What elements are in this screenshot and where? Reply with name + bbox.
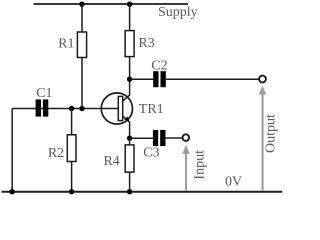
node: R2 / 0V junction — [69, 189, 74, 194]
TR1 emitter arrowhead — [124, 116, 129, 121]
output terminal (open circle) — [259, 76, 266, 83]
wire: supply rail — [34, 3, 189, 5]
svg-text:R2: R2 — [48, 146, 64, 161]
wire: base wire from left riser to TR1 base — [12, 108, 118, 110]
TR1 body circle — [101, 93, 132, 124]
wire: R4 bottom to 0V rail — [129, 172, 131, 192]
node: base wire / R1 junction — [79, 106, 84, 111]
TR1 base bar — [118, 96, 122, 120]
resistor R3 — [125, 31, 134, 57]
svg-text:R1: R1 — [58, 37, 74, 52]
wire: supply rail to R1 top — [81, 4, 83, 32]
svg-text:R3: R3 — [138, 36, 154, 51]
svg-text:C2: C2 — [151, 59, 167, 74]
resistor R1 — [77, 32, 86, 58]
output annotation arrow — [259, 86, 267, 191]
node: collector / C2 junction — [127, 77, 132, 82]
svg-text:Output: Output — [264, 114, 279, 153]
capacitor C1 — [36, 99, 49, 116]
wire: left grounding riser — [11, 109, 13, 193]
node: R4 / 0V junction — [127, 189, 132, 194]
node: emitter / R4 / C3 junction — [127, 136, 132, 141]
svg-text:C3: C3 — [143, 145, 159, 160]
transistor TR1 (NPN) — [101, 93, 132, 124]
resistor R4 — [125, 145, 134, 172]
wire: 0V rail — [2, 191, 283, 193]
capacitor C2 — [153, 71, 166, 87]
wire: base node down to R2 top — [71, 109, 73, 135]
svg-text:C1: C1 — [36, 86, 52, 101]
input terminal (open circle) — [183, 134, 190, 141]
svg-text:Supply: Supply — [158, 5, 198, 20]
wire: C2 to output terminal — [166, 78, 259, 80]
TR1 collector lead — [123, 95, 131, 101]
wire: C3 to input terminal — [166, 137, 183, 139]
wire: collector node to C2 — [130, 78, 154, 80]
node: supply / R1 junction — [79, 1, 84, 6]
capacitor C3 — [153, 130, 166, 146]
wire: R3 bottom to collector node — [129, 57, 131, 96]
wire: R1 bottom to base node — [81, 58, 83, 109]
wire: R2 bottom to 0V rail — [71, 162, 73, 193]
wire: emitter node to C3 — [130, 137, 153, 139]
resistor R2 — [67, 135, 76, 162]
svg-text:TR1: TR1 — [139, 102, 164, 117]
wire: supply rail to R3 top — [129, 4, 131, 31]
svg-text:0V: 0V — [225, 175, 242, 190]
node: left riser / 0V junction — [10, 189, 15, 194]
wire: emitter node to R4 top — [129, 138, 131, 145]
node: supply / R3 junction — [127, 1, 132, 6]
svg-text:R4: R4 — [103, 154, 119, 169]
node: base wire / R2 junction — [69, 106, 74, 111]
svg-text:Input: Input — [192, 150, 207, 180]
input annotation arrow — [182, 145, 190, 190]
TR1 emitter lead — [123, 116, 130, 122]
wire: emitter vertical to emitter node — [129, 122, 131, 138]
